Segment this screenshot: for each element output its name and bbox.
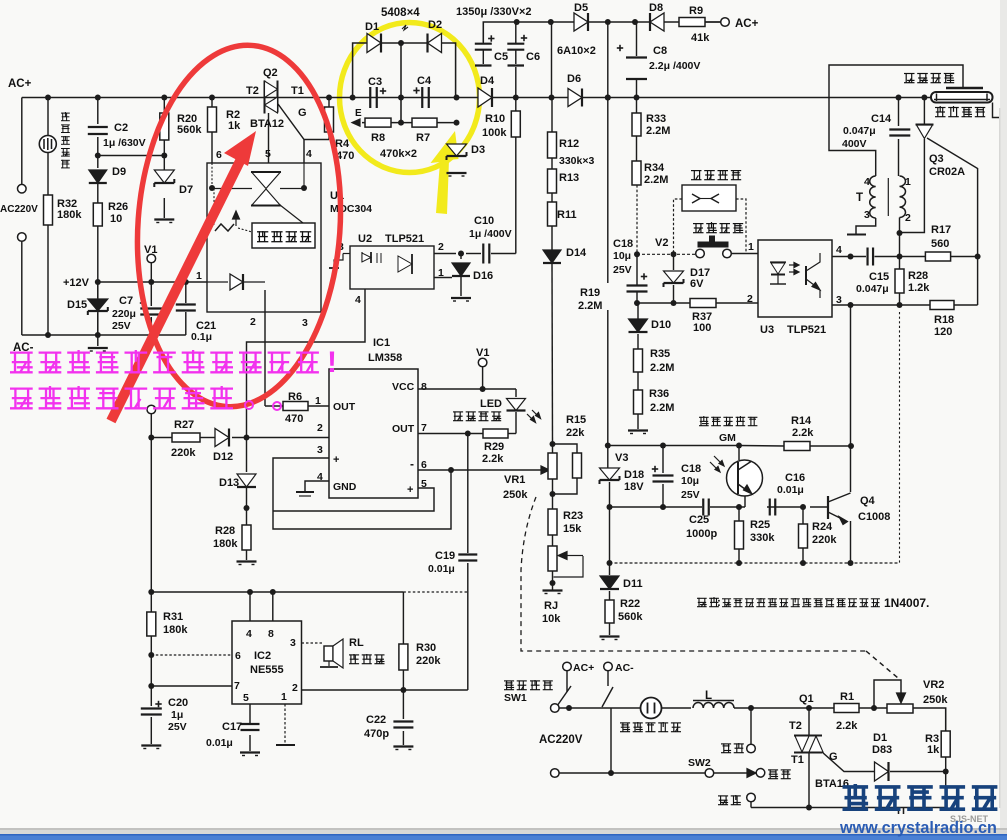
svg-text:2.2M: 2.2M [644, 174, 668, 186]
svg-text:C20: C20 [168, 697, 188, 709]
junction dots [45, 95, 51, 101]
watermark logo text [843, 785, 869, 789]
svg-text:R9: R9 [689, 5, 703, 17]
svg-text:TLP521: TLP521 [385, 233, 424, 245]
svg-text:4: 4 [246, 628, 252, 640]
diode D8 [650, 13, 664, 31]
U3 internal led phototransistor [770, 261, 786, 263]
svg-text:4: 4 [306, 148, 312, 160]
svg-text:2.2k: 2.2k [836, 720, 858, 732]
svg-text:R36: R36 [649, 388, 669, 400]
wire bottom dotted rail [610, 562, 900, 564]
svg-text:560k: 560k [177, 124, 202, 136]
svg-text:MOC304: MOC304 [330, 203, 372, 215]
resistor R26 [93, 203, 102, 226]
capacitor C3 [369, 87, 371, 108]
svg-text:R19: R19 [580, 287, 600, 299]
resistors R12 R13 R11 [548, 132, 557, 158]
svg-text:180k: 180k [57, 209, 82, 221]
svg-text:+12V: +12V [63, 277, 90, 289]
svg-text:0.01μ: 0.01μ [206, 737, 233, 749]
resistor R37 [690, 299, 716, 308]
wire SW1 blades [566, 671, 568, 692]
svg-text:10μ: 10μ [613, 250, 631, 262]
capacitor C19 [458, 553, 477, 555]
wire left AC terminal drop [21, 98, 23, 185]
svg-text:180k: 180k [163, 624, 188, 636]
node E arrow [352, 119, 360, 126]
wire MOC internal cathode down to R6 [264, 290, 266, 406]
U2 pin wires [434, 253, 456, 255]
svg-text:R30: R30 [416, 642, 436, 654]
diode D16 [460, 254, 462, 260]
svg-text:2: 2 [747, 293, 753, 305]
svg-text:6: 6 [421, 459, 427, 471]
U3 TLP521 box [758, 240, 832, 317]
svg-text:1350μ /330V×2: 1350μ /330V×2 [456, 6, 532, 18]
wire R23 to RJ [552, 535, 554, 546]
svg-text:D10: D10 [651, 319, 671, 331]
svg-text:470p: 470p [364, 728, 389, 740]
svg-text:AC220V: AC220V [539, 734, 583, 746]
diode D12 [215, 429, 229, 447]
svg-text:3: 3 [302, 317, 308, 329]
resistor R3 [941, 731, 950, 757]
resistor R28a [242, 525, 251, 550]
label power switch [504, 680, 514, 682]
svg-text:R24: R24 [812, 521, 833, 533]
capacitor C14 [889, 128, 910, 130]
svg-text:2.2M: 2.2M [650, 362, 674, 374]
svg-text:120: 120 [934, 326, 952, 338]
svg-text:8: 8 [268, 628, 274, 640]
wire R27 D12 to IC1 pin2 [151, 437, 172, 439]
resistor R31 [147, 612, 156, 636]
svg-text:L: L [705, 690, 712, 702]
svg-text:250k: 250k [923, 694, 948, 706]
svg-text:E: E [355, 108, 362, 119]
svg-text:41k: 41k [691, 32, 710, 44]
svg-text::: : [717, 597, 721, 609]
svg-text:10μ: 10μ [681, 475, 699, 487]
wire R3 bottom [945, 757, 947, 772]
wire Q2 gate [278, 104, 304, 163]
transformer T [870, 176, 876, 218]
wire bridge center [400, 43, 402, 123]
svg-text:25V: 25V [112, 320, 131, 332]
ground AC- rail [88, 347, 108, 349]
resistor R9 [679, 18, 705, 27]
capacitor C25 [702, 499, 704, 516]
svg-text:C3: C3 [368, 76, 382, 88]
IC1 LM358 box [329, 369, 418, 498]
wire lianshankong drops [674, 199, 683, 254]
svg-text:1k: 1k [927, 744, 940, 756]
wire IC1 pin4 gnd [305, 481, 329, 492]
svg-text:D83: D83 [872, 744, 892, 756]
diode D14 [543, 250, 561, 263]
capacitor C10 [482, 244, 484, 264]
svg-text:1: 1 [281, 691, 287, 703]
svg-text:C14: C14 [871, 113, 892, 125]
svg-text:1k: 1k [228, 120, 241, 132]
svg-text:2: 2 [250, 316, 256, 328]
wire R25 column [738, 507, 740, 521]
wire C6-R10 column [515, 22, 517, 43]
resistor R15 [573, 453, 582, 478]
wire C14 column [898, 98, 900, 127]
svg-text:1: 1 [748, 241, 754, 253]
wire lamp-R32 column [47, 98, 49, 137]
wire R6 to IC1 pin1 [308, 405, 329, 407]
wire AC- rail [22, 334, 186, 336]
label power lamp [61, 112, 70, 114]
wire C21 column [185, 282, 187, 303]
svg-text:D15: D15 [67, 299, 87, 311]
wire V2 row [637, 253, 696, 255]
flash trigger electrode plate [946, 87, 983, 89]
svg-text:Q2: Q2 [263, 67, 278, 79]
triac Q2 [264, 81, 266, 114]
svg-text:3: 3 [864, 209, 870, 221]
svg-text:V1: V1 [144, 244, 157, 256]
svg-text:6: 6 [216, 149, 222, 161]
svg-text:4: 4 [864, 176, 870, 188]
wire dotted right column [899, 312, 901, 563]
label charge indicator [453, 411, 463, 413]
svg-text:LM358: LM358 [368, 352, 402, 364]
label shuma [721, 743, 731, 745]
wire C22 column [402, 690, 404, 719]
svg-text:D8: D8 [649, 2, 663, 14]
svg-text:6V: 6V [690, 278, 704, 290]
svg-text:D9: D9 [112, 166, 126, 178]
IC2 NE555 box [232, 621, 302, 704]
wire dashed diagonal to VR2 [866, 651, 898, 678]
svg-text:C19: C19 [435, 550, 455, 562]
diode D4 [478, 88, 492, 107]
diode D15 zener [88, 299, 108, 311]
wire Q1 gate to D1 [822, 752, 875, 772]
wire Q4 collector column [850, 305, 852, 446]
svg-text:470k×2: 470k×2 [380, 148, 417, 160]
U1 MOC304 box [207, 163, 321, 312]
svg-text:D11: D11 [623, 578, 643, 590]
wire VR1 column top [552, 444, 554, 453]
svg-text:1: 1 [438, 267, 444, 279]
wire R12 column [551, 22, 553, 98]
svg-text:AC+: AC+ [8, 78, 32, 90]
svg-text:5: 5 [243, 692, 249, 704]
red arrow annotation [111, 155, 243, 421]
svg-text:D18: D18 [624, 469, 644, 481]
svg-text:D1: D1 [365, 21, 379, 33]
resistor R8 [365, 118, 391, 127]
resistor R20 [160, 113, 169, 140]
svg-text:2: 2 [438, 241, 444, 253]
svg-text:2: 2 [317, 422, 323, 434]
svg-text:R29: R29 [484, 441, 504, 453]
bottom gray strip [0, 828, 1007, 835]
resistor R18 [930, 301, 954, 310]
lamp power indicator [39, 136, 56, 153]
svg-text:IC1: IC1 [373, 337, 390, 349]
diode D1 D83 [875, 762, 889, 781]
resistor R30 [399, 644, 408, 670]
LED charge indicator [507, 399, 526, 411]
wire IC2 pin1 stub [284, 704, 286, 744]
resistor R35 [634, 349, 643, 372]
diode D6 [568, 89, 582, 107]
capacitor C17 [241, 723, 260, 725]
svg-text:470: 470 [285, 413, 303, 425]
svg-text:V1: V1 [476, 347, 489, 359]
wire IC2 pin5 C17 [249, 704, 251, 723]
wire bottom row2 [559, 772, 705, 774]
svg-text:2.2M: 2.2M [646, 125, 670, 137]
svg-text:10k: 10k [542, 613, 561, 625]
svg-text:6: 6 [235, 650, 241, 662]
svg-text:T1: T1 [291, 85, 304, 97]
wire C5 stem [482, 42, 484, 44]
svg-text:+: + [407, 484, 413, 496]
U2 TLP521 box [350, 246, 434, 289]
svg-text:2: 2 [292, 682, 298, 694]
wire C2-D9-R26 column [97, 98, 99, 125]
capacitor C6 [507, 43, 524, 45]
svg-text:1.2k: 1.2k [908, 282, 930, 294]
wire IC2 pin2 out [302, 689, 468, 691]
capacitor C8 [626, 56, 647, 58]
svg-text:U2: U2 [358, 233, 372, 245]
svg-text:C16: C16 [785, 472, 805, 484]
svg-text:G: G [298, 107, 307, 119]
svg-text:1: 1 [196, 270, 202, 282]
svg-text:R25: R25 [750, 519, 770, 531]
wire D13 column [246, 438, 248, 473]
potentiometer RJ [548, 546, 557, 571]
resistor R23 [548, 509, 557, 535]
svg-text:2.2k: 2.2k [482, 453, 504, 465]
svg-text:T1: T1 [791, 754, 804, 766]
wire R28b column [899, 257, 901, 270]
svg-text:C25: C25 [689, 514, 709, 526]
svg-text:D16: D16 [473, 270, 493, 282]
svg-text:R22: R22 [620, 598, 640, 610]
wire Q1 column [808, 708, 810, 735]
svg-text:R18: R18 [934, 314, 954, 326]
svg-text:SW1: SW1 [504, 692, 527, 704]
svg-text:2.2k: 2.2k [792, 427, 814, 439]
wire V1b stub [482, 367, 484, 389]
svg-text:U3: U3 [760, 324, 774, 336]
U1 zero-cross trigger label box [252, 223, 315, 248]
wire Q3 gate diagonal [927, 138, 978, 257]
svg-text:5: 5 [265, 148, 271, 160]
svg-text:V2: V2 [655, 237, 668, 249]
svg-text:D7: D7 [179, 184, 193, 196]
red ellipse annotation [126, 38, 353, 413]
wire U3 pin4 row C15 R17 [832, 256, 866, 258]
wire MOC pin2 to U2 pin4 [247, 289, 366, 438]
wire V1 column to IC1 pin2 wire [150, 414, 152, 438]
resistor VR1 [548, 453, 557, 479]
svg-text:C22: C22 [366, 714, 386, 726]
svg-text:AC220V: AC220V [0, 204, 38, 215]
svg-text:NE555: NE555 [250, 664, 284, 676]
svg-text:C5: C5 [494, 51, 508, 63]
flash tube [931, 92, 993, 103]
svg-text:1: 1 [905, 176, 911, 188]
svg-text:D14: D14 [566, 247, 587, 259]
svg-text:V3: V3 [615, 452, 628, 464]
svg-text:OUT: OUT [333, 401, 356, 413]
magenta annotation line1 [10, 351, 33, 353]
label buzzer [349, 654, 359, 656]
wire +12V rail [98, 281, 207, 283]
diode D7 zener [154, 170, 174, 183]
wire buzzer top rail [151, 591, 403, 593]
wire V1 stub [150, 263, 152, 282]
resistor R17 [925, 252, 950, 261]
wire R2 pin6 column [211, 98, 213, 108]
svg-text:R15: R15 [566, 414, 586, 426]
svg-text:D3: D3 [471, 144, 485, 156]
phototransistor GM [727, 460, 763, 496]
svg-text:AC+: AC+ [735, 18, 759, 30]
triac Q1 [794, 735, 822, 737]
svg-text:R11: R11 [557, 209, 577, 221]
resistor R34 [632, 161, 641, 185]
lianshankong box [682, 185, 736, 211]
svg-text:VCC: VCC [392, 381, 415, 393]
inductor L [693, 703, 734, 708]
svg-text:18V: 18V [624, 481, 644, 493]
svg-text:BTA12: BTA12 [250, 118, 284, 130]
wire photo row C25 C16 [610, 506, 664, 508]
resistor R24 [799, 524, 808, 548]
wire C18b column [662, 446, 664, 474]
wire top rail [483, 22, 725, 42]
wire U3 pin3 row R18 [832, 304, 930, 306]
svg-text:1μ /400V: 1μ /400V [469, 228, 512, 240]
thyristor Q3 [916, 124, 934, 126]
label lianshankong [691, 170, 702, 172]
resistor R7 [412, 118, 437, 127]
svg-text:R8: R8 [371, 132, 385, 144]
diode D10 [629, 319, 648, 332]
svg-text:R27: R27 [174, 419, 194, 431]
svg-text:15k: 15k [563, 523, 582, 535]
svg-text:G: G [829, 751, 838, 763]
svg-text:!: ! [327, 346, 337, 379]
svg-text:1N4007.: 1N4007. [884, 596, 929, 610]
svg-text:400V: 400V [842, 138, 867, 150]
capacitor C2 [88, 126, 108, 128]
label star mark [402, 25, 408, 30]
diode D9 [89, 170, 107, 183]
svg-text:R6: R6 [288, 391, 302, 403]
U1 zero cross symbol [280, 205, 303, 223]
capacitor C16 [769, 499, 771, 516]
capacitor C4 [421, 87, 423, 108]
wire Q2 pin5 column [268, 113, 270, 163]
U1 internal triac [251, 171, 281, 173]
wire R1 VR2 nodes [886, 704, 888, 708]
svg-text:330k×3: 330k×3 [559, 155, 594, 167]
label tiaoguang [718, 795, 728, 797]
svg-text:C2: C2 [114, 122, 128, 134]
wire V2 node to C18 D10 column [636, 254, 638, 285]
capacitor C18b [653, 474, 674, 476]
wire R24 column [802, 507, 804, 524]
svg-text:R1: R1 [840, 691, 854, 703]
wire IC1 pin6 to VR1 arrow [418, 469, 544, 471]
svg-text:560k: 560k [618, 611, 643, 623]
svg-text:D6: D6 [567, 73, 581, 85]
wire C7 column [150, 282, 152, 306]
capacitor C15 [866, 248, 868, 266]
svg-text:GM: GM [719, 432, 736, 444]
svg-text:R31: R31 [163, 611, 183, 623]
svg-text:250k: 250k [503, 489, 528, 501]
wire C19 column [467, 434, 469, 554]
label guanbi [768, 769, 778, 771]
svg-text:VR1: VR1 [504, 474, 525, 486]
label test button [693, 223, 704, 225]
svg-text:Q4: Q4 [860, 495, 876, 507]
wire R37 row to U3 pin2 [637, 302, 690, 304]
svg-text:C8: C8 [653, 45, 667, 57]
svg-text:LED: LED [480, 398, 502, 410]
yellow circle annotation [340, 23, 480, 173]
svg-text:25V: 25V [168, 721, 187, 733]
svg-text:AC+: AC+ [573, 662, 594, 674]
svg-text:2.2M: 2.2M [650, 402, 674, 414]
svg-text:GND: GND [333, 481, 357, 493]
capacitor C21 [176, 303, 196, 305]
svg-text:R28: R28 [215, 525, 235, 537]
label lamp socket [620, 722, 630, 724]
svg-text:D13: D13 [219, 477, 239, 489]
svg-text:D5: D5 [574, 2, 588, 14]
wire IC2 pin3 to buzzer [302, 642, 325, 644]
bridge diode D1 [367, 34, 381, 53]
svg-text:D2: D2 [428, 19, 442, 31]
U2 internal optocoupler [338, 246, 340, 254]
svg-text:C15: C15 [869, 271, 889, 283]
resistor R29 [483, 429, 508, 438]
svg-text:R35: R35 [650, 348, 670, 360]
wire flashtube right hook [993, 103, 1001, 122]
resistor R28b [895, 269, 904, 293]
wire C8-R33-R34-V2 column [636, 22, 638, 56]
resistor R25 [735, 521, 744, 549]
bottom blue bar [0, 835, 1007, 840]
label flash tube [935, 107, 946, 109]
resistor R36 [634, 390, 643, 414]
svg-text:220k: 220k [171, 447, 196, 459]
svg-text:SW2: SW2 [688, 757, 711, 769]
svg-text:T: T [856, 192, 863, 204]
wire long column D6-R19-V3-D11 [607, 22, 609, 98]
svg-text:R28: R28 [908, 270, 928, 282]
label photo trigger [699, 416, 709, 418]
svg-text:CR02A: CR02A [929, 166, 965, 178]
svg-text:4: 4 [836, 244, 842, 256]
svg-text:R23: R23 [563, 510, 583, 522]
svg-text:OUT: OUT [392, 423, 415, 435]
